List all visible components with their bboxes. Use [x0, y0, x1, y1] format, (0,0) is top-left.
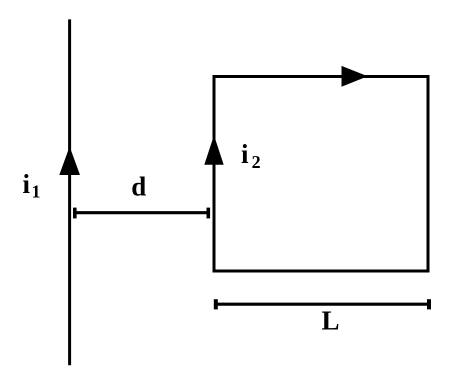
svg-text:d: d: [131, 171, 146, 201]
svg-text:i: i: [23, 169, 31, 199]
arrowhead A2: current direction i2 (right) on loop top side: [342, 66, 368, 87]
loop: square current loop: [214, 77, 428, 272]
svg-text:1: 1: [32, 182, 41, 202]
arrowhead A1: current direction i1 (up) on wire: [59, 147, 80, 176]
svg-text:2: 2: [252, 152, 261, 172]
svg-text:L: L: [322, 305, 340, 335]
dimension line d: between wire and loop: [75, 208, 209, 219]
arrowhead A3: current direction i2 (up) on loop left side: [204, 135, 223, 165]
wire W1: long straight vertical wire: [68, 19, 71, 365]
svg-text:i: i: [241, 139, 249, 169]
dimension line L: under loop: [216, 299, 429, 309]
